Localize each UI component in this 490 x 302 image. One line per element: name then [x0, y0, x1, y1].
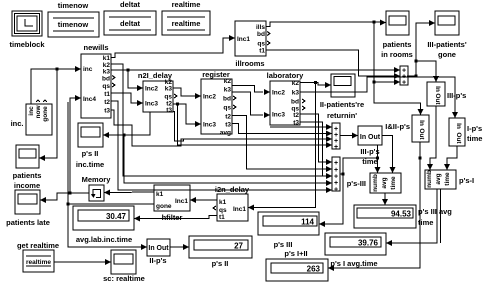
svg-text:39.76: 39.76: [358, 239, 379, 248]
wire In Out II-p's to 27 display: [170, 244, 189, 250]
scope sc: realtime: [103, 250, 145, 283]
svg-text:deltat: deltat: [120, 19, 141, 28]
svg-text:+: +: [402, 80, 406, 87]
svg-text:k2: k2: [224, 78, 232, 85]
svg-text:Inc1: Inc1: [175, 198, 188, 205]
subsystem In/Out vertical (III-p's): [427, 82, 466, 106]
wire hfilter.k1 to Memory: [104, 190, 154, 196]
svg-text:t2: t2: [293, 112, 299, 119]
subsystem i2n_delay: [213, 185, 250, 221]
svg-text:II-p's: II-p's: [149, 256, 166, 265]
sum block sum1: [332, 123, 340, 151]
svg-text:inc.time: inc.time: [76, 160, 104, 169]
svg-text:inc.: inc.: [11, 119, 24, 128]
svg-text:qs: qs: [164, 94, 172, 101]
wire In Out (III-p's time) out to numb p's-III: [382, 136, 396, 174]
svg-text:in rooms: in rooms: [381, 50, 413, 59]
wire newills.k3 trunk to sum3, branch to n2I_delay.Inc2: [111, 67, 400, 91]
svg-text:t1: t1: [219, 214, 225, 221]
svg-text:t1: t1: [104, 91, 110, 98]
wire illrooms.t1 to sum3: [266, 50, 400, 79]
svg-text:bd: bd: [223, 96, 231, 103]
svg-text:patients: patients: [13, 171, 42, 180]
svg-text:In Out: In Out: [360, 134, 381, 141]
svg-text:time: time: [390, 176, 397, 190]
wire newills.k2 to sum2: [111, 64, 332, 179]
svg-text:get realtime: get realtime: [17, 241, 59, 250]
svg-text:inc: inc: [83, 66, 93, 73]
wire illrooms.ills to patients in rooms scope, branches to sum3 and I&II-p's: [266, 20, 424, 116]
wire numb p's-I out to 39.76: [386, 189, 441, 246]
svg-text:numb: numb: [426, 170, 433, 188]
svg-text:illrooms: illrooms: [235, 59, 264, 68]
svg-text:k3: k3: [224, 87, 232, 94]
subsystem laboratory: [267, 71, 305, 127]
wire newills.t1 to n2I_delay.Inc3: [111, 93, 143, 106]
data store read get realtime: [17, 241, 59, 272]
display 27: [189, 236, 252, 268]
data store realtime: [162, 0, 210, 35]
svg-text:In: In: [418, 120, 425, 126]
svg-text:k3: k3: [103, 69, 111, 76]
svg-text:gone: gone: [156, 203, 172, 210]
svg-text:k3: k3: [292, 90, 300, 97]
svg-text:numb: numb: [372, 174, 379, 192]
svg-text:t2: t2: [225, 114, 231, 121]
wire sum3.out up to III-patients' gone scope: [407, 20, 435, 78]
display 94.53: [354, 205, 452, 228]
wire into p's II inc.time scope, branch to sum2: [103, 112, 332, 186]
svg-text:27: 27: [234, 242, 243, 251]
data store timenow: [48, 1, 99, 37]
wire i2n.t1 to 30.47 display: [134, 216, 217, 222]
wire laboratory.t2 to sum2: [300, 114, 332, 165]
wire I&II-p's out to 263 display, branch to numb p's-I: [328, 142, 422, 271]
svg-text:In: In: [455, 123, 462, 129]
svg-text:qs: qs: [223, 105, 231, 112]
scope II-patients're returnin': [320, 74, 364, 120]
node branch to patients income: [39, 68, 59, 162]
svg-text:p's-I: p's-I: [459, 176, 474, 185]
svg-text:now: now: [35, 105, 42, 119]
svg-text:patients late: patients late: [6, 218, 50, 227]
wire laboratory.k2 to II-patients're returnin' scope, branch to i2n_delay: [248, 81, 331, 211]
svg-text:30.47: 30.47: [106, 212, 127, 221]
svg-text:II-patients're: II-patients're: [320, 100, 364, 109]
svg-text:Out: Out: [434, 93, 441, 105]
counter numb/avg/time (p's-III): [347, 173, 401, 193]
svg-text:laboratory: laboratory: [267, 71, 305, 80]
wire laboratory.t3 to sum2: [300, 122, 326, 176]
Memory block: [82, 175, 112, 201]
svg-text:time: time: [444, 172, 451, 186]
svg-text:Inc2: Inc2: [203, 94, 216, 101]
svg-text:Inc1: Inc1: [237, 36, 250, 43]
svg-text:inc: inc: [28, 106, 35, 116]
svg-text:Inc2: Inc2: [145, 86, 158, 93]
svg-text:newills: newills: [83, 43, 108, 52]
svg-text:Out: Out: [455, 132, 462, 144]
svg-text:k3: k3: [165, 86, 173, 93]
svg-text:263: 263: [307, 265, 321, 274]
svg-text:p's-III: p's-III: [347, 179, 366, 188]
svg-text:p's I avg.time: p's I avg.time: [330, 259, 377, 268]
svg-text:III-patients': III-patients': [427, 40, 467, 49]
svg-text:p's II: p's II: [212, 259, 229, 268]
svg-text:income: income: [14, 181, 40, 190]
svg-text:avg: avg: [381, 177, 388, 188]
svg-text:94.53: 94.53: [391, 210, 412, 219]
svg-text:timenow: timenow: [58, 1, 89, 10]
wire inc. to newills.inc: [31, 66, 81, 104]
counter numb/avg/time (p's-I): [425, 170, 474, 189]
display 30.47: [73, 206, 134, 244]
wire n2I.t2 to register.Inc3: [173, 103, 201, 128]
scope patients income: [13, 145, 42, 190]
wire hfilter.gone to In Out II-p's: [67, 102, 155, 250]
svg-text:t1: t1: [259, 48, 265, 55]
wire register.qs to laboratory.Inc3: [232, 92, 270, 118]
wire numb p's-III out to 94.53: [382, 193, 388, 205]
svg-text:avg: avg: [435, 173, 442, 184]
sum block sum2: [332, 157, 340, 194]
wire sum2.out to 114 display, branch to numb p's-III: [319, 145, 381, 227]
svg-text:realtime: realtime: [172, 19, 201, 28]
svg-text:Inc4: Inc4: [83, 96, 96, 103]
svg-text:p's III avg: p's III avg: [418, 207, 452, 216]
svg-text:p's I+II: p's I+II: [284, 249, 307, 258]
svg-text:Inc1: Inc1: [233, 206, 246, 213]
svg-text:t3: t3: [293, 120, 299, 127]
svg-text:III-p's: III-p's: [447, 91, 466, 100]
svg-text:Inc2: Inc2: [272, 90, 285, 97]
svg-text:avg: avg: [220, 130, 231, 137]
svg-text:Inc3: Inc3: [145, 101, 158, 108]
svg-text:gone: gone: [438, 50, 456, 59]
wire i2n.k1 to hfilter.Inc1: [190, 197, 217, 203]
wire sum1.out to In Out: [340, 133, 358, 139]
wire sum1 input from laboratory area: [270, 124, 332, 130]
svg-text:qs: qs: [257, 41, 265, 48]
subsystem inc.: [11, 100, 52, 135]
subsystem In/Out vertical (I-p's time): [449, 118, 482, 146]
wire laboratory.k3 to In/Out I-p's time: [300, 77, 458, 118]
clock block U_timeblock: [9, 11, 45, 49]
svg-text:+: +: [334, 160, 338, 167]
display 263: [266, 249, 328, 281]
wire newills.t3 to sum1 (U route): [111, 110, 332, 146]
svg-text:t3: t3: [225, 122, 231, 129]
svg-text:k1: k1: [219, 199, 227, 206]
wire Memory.out to newills.Inc4 and patients late: [40, 95, 89, 203]
svg-text:avg.lab.inc.time: avg.lab.inc.time: [76, 235, 132, 244]
subsystem In Out (III-p's time): [358, 126, 382, 166]
svg-text:t3: t3: [104, 108, 110, 115]
display 114: [258, 212, 319, 249]
svg-text:timeblock: timeblock: [9, 40, 45, 49]
svg-text:t2: t2: [104, 99, 110, 106]
svg-text:time: time: [467, 134, 482, 143]
svg-text:ills: ills: [256, 24, 265, 31]
svg-text:bd: bd: [291, 99, 299, 106]
svg-text:qs: qs: [102, 83, 110, 90]
scope patients late: [6, 190, 50, 227]
svg-text:k1: k1: [103, 55, 111, 62]
svg-text:+: +: [334, 144, 338, 151]
svg-text:Inc3: Inc3: [272, 112, 285, 119]
subsystem In/Out vertical (I&II-p's): [385, 115, 429, 142]
subsystem n2I_delay: [138, 71, 177, 114]
svg-text:t3: t3: [166, 107, 172, 114]
wire I-p's time out to numb p's-I: [444, 146, 457, 170]
svg-text:Memory: Memory: [82, 175, 112, 184]
subsystem hfilter: [154, 185, 190, 222]
scope patients in rooms: [381, 11, 413, 59]
wire register.t2 to sum2: [232, 116, 332, 173]
wire n2I.t3 joining lower bus: [173, 112, 184, 142]
display 39.76: [325, 233, 386, 268]
svg-text:+: +: [334, 187, 338, 194]
svg-text:deltat: deltat: [120, 0, 141, 9]
svg-text:timenow: timenow: [58, 20, 89, 29]
svg-text:k2: k2: [292, 80, 300, 87]
svg-text:114: 114: [301, 218, 314, 227]
wire register.k3 to laboratory.Inc2: [232, 86, 270, 96]
svg-text:returnin': returnin': [327, 111, 357, 120]
data store deltat: [104, 0, 156, 35]
subsystem illrooms: [235, 21, 270, 68]
svg-text:I-p's: I-p's: [467, 124, 482, 133]
svg-text:Out: Out: [418, 128, 425, 140]
scope p's II inc.time: [76, 123, 104, 169]
svg-text:sc: realtime: sc: realtime: [103, 274, 145, 283]
wire In/Out III-p's out to numb p's-I: [427, 106, 436, 170]
svg-text:hfilter: hfilter: [162, 213, 183, 222]
wire branch to In/Out III-p's: [416, 61, 439, 82]
svg-text:bd: bd: [257, 31, 265, 38]
svg-text:Inc3: Inc3: [203, 122, 216, 129]
svg-text:gone: gone: [42, 106, 49, 122]
svg-text:qs: qs: [219, 207, 227, 214]
svg-text:realtime: realtime: [172, 0, 201, 9]
svg-text:p's II: p's II: [82, 149, 99, 158]
subsystem newills: [81, 43, 115, 118]
svg-text:bd: bd: [102, 76, 110, 83]
subsystem register: [201, 70, 236, 137]
wire n2I.t2 to sum1: [173, 104, 332, 148]
wire get realtime to sc: realtime: [54, 259, 111, 265]
wire n2I.k3 to register.Inc2: [173, 88, 201, 99]
wire newills.k1 to illrooms.Inc1: [111, 35, 235, 58]
svg-text:III-p's: III-p's: [360, 147, 379, 156]
wire newills.t2 to sum2: [111, 101, 332, 193]
svg-text:patients: patients: [383, 40, 412, 49]
wire register.t3 to sum1: [232, 124, 332, 137]
svg-text:p's III: p's III: [274, 240, 293, 249]
subsystem In Out (II-p's): [147, 239, 170, 265]
scope III-patients' gone: [427, 11, 467, 59]
svg-text:k1: k1: [156, 191, 164, 198]
svg-text:In: In: [434, 86, 441, 92]
sum block sum3 (3 inputs): [400, 66, 408, 87]
svg-text:In Out: In Out: [148, 245, 169, 252]
svg-text:realtime: realtime: [26, 259, 51, 266]
svg-text:I&II-p's: I&II-p's: [385, 122, 410, 131]
